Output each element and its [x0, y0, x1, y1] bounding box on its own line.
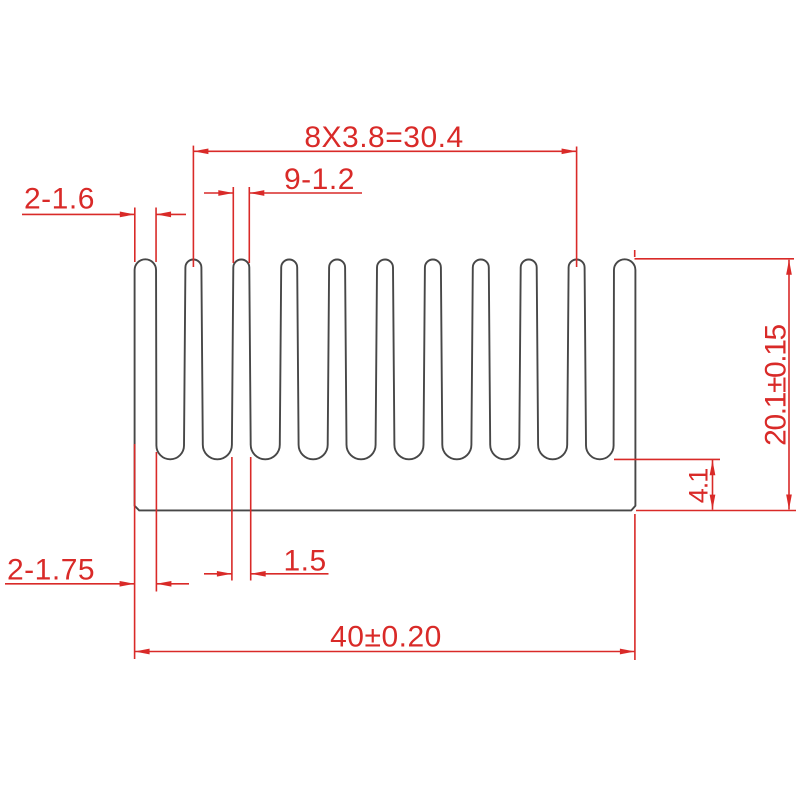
dim 40 dimension line: [135, 651, 635, 653]
dim 8X3.8=30.4 right extension line: [576, 147, 578, 268]
svg-text:4.1: 4.1: [684, 469, 714, 504]
dim 9-1.2 right arrow line: [249, 192, 362, 194]
dim 2-1.75 right extension line: [155, 452, 157, 592]
svg-text:1.5: 1.5: [284, 545, 327, 578]
dim 1.5 right arrow line: [251, 573, 329, 575]
dim 20.1 bottom extension line: [636, 510, 796, 512]
dim 2-1.6 dimension line: [22, 213, 135, 215]
dim 2-1.75 right arrow line: [156, 583, 189, 585]
dim 9-1.2 extension lines: [232, 187, 234, 263]
svg-text:9-1.2: 9-1.2: [284, 163, 355, 196]
dim 2-1.75 left extension line (long, over body edge): [134, 444, 136, 659]
dim 1.5 extension lines: [231, 457, 233, 581]
dim 2-1.75 dimension line: [5, 583, 135, 585]
svg-text:40±0.20: 40±0.20: [330, 621, 442, 654]
heatsink profile outline: [135, 259, 636, 510]
svg-text:20.1±0.15: 20.1±0.15: [760, 324, 793, 445]
dim 20.1 dimension line: [788, 260, 790, 510]
dim 20.1 corner tick: [634, 250, 636, 257]
dim 20.1 top extension line: [635, 258, 795, 260]
svg-text:2-1.6: 2-1.6: [24, 183, 95, 216]
dim 4.1 top extension line: [614, 458, 720, 460]
dim 40 right extension line: [634, 514, 636, 660]
svg-text:2-1.75: 2-1.75: [7, 554, 95, 587]
dim 8X3.8=30.4 dimension line: [193, 150, 576, 152]
svg-text:8X3.8=30.4: 8X3.8=30.4: [304, 121, 463, 154]
dim 9-1.2 left arrow line: [204, 192, 233, 194]
dim 8X3.8=30.4 left extension line: [192, 146, 194, 267]
dim 1.5 left arrow line: [204, 573, 232, 575]
dim 2-1.6 extension lines: [134, 208, 136, 263]
dim 4.1 dimension line: [712, 460, 714, 510]
dim 2-1.6 right arrow line: [156, 213, 186, 215]
